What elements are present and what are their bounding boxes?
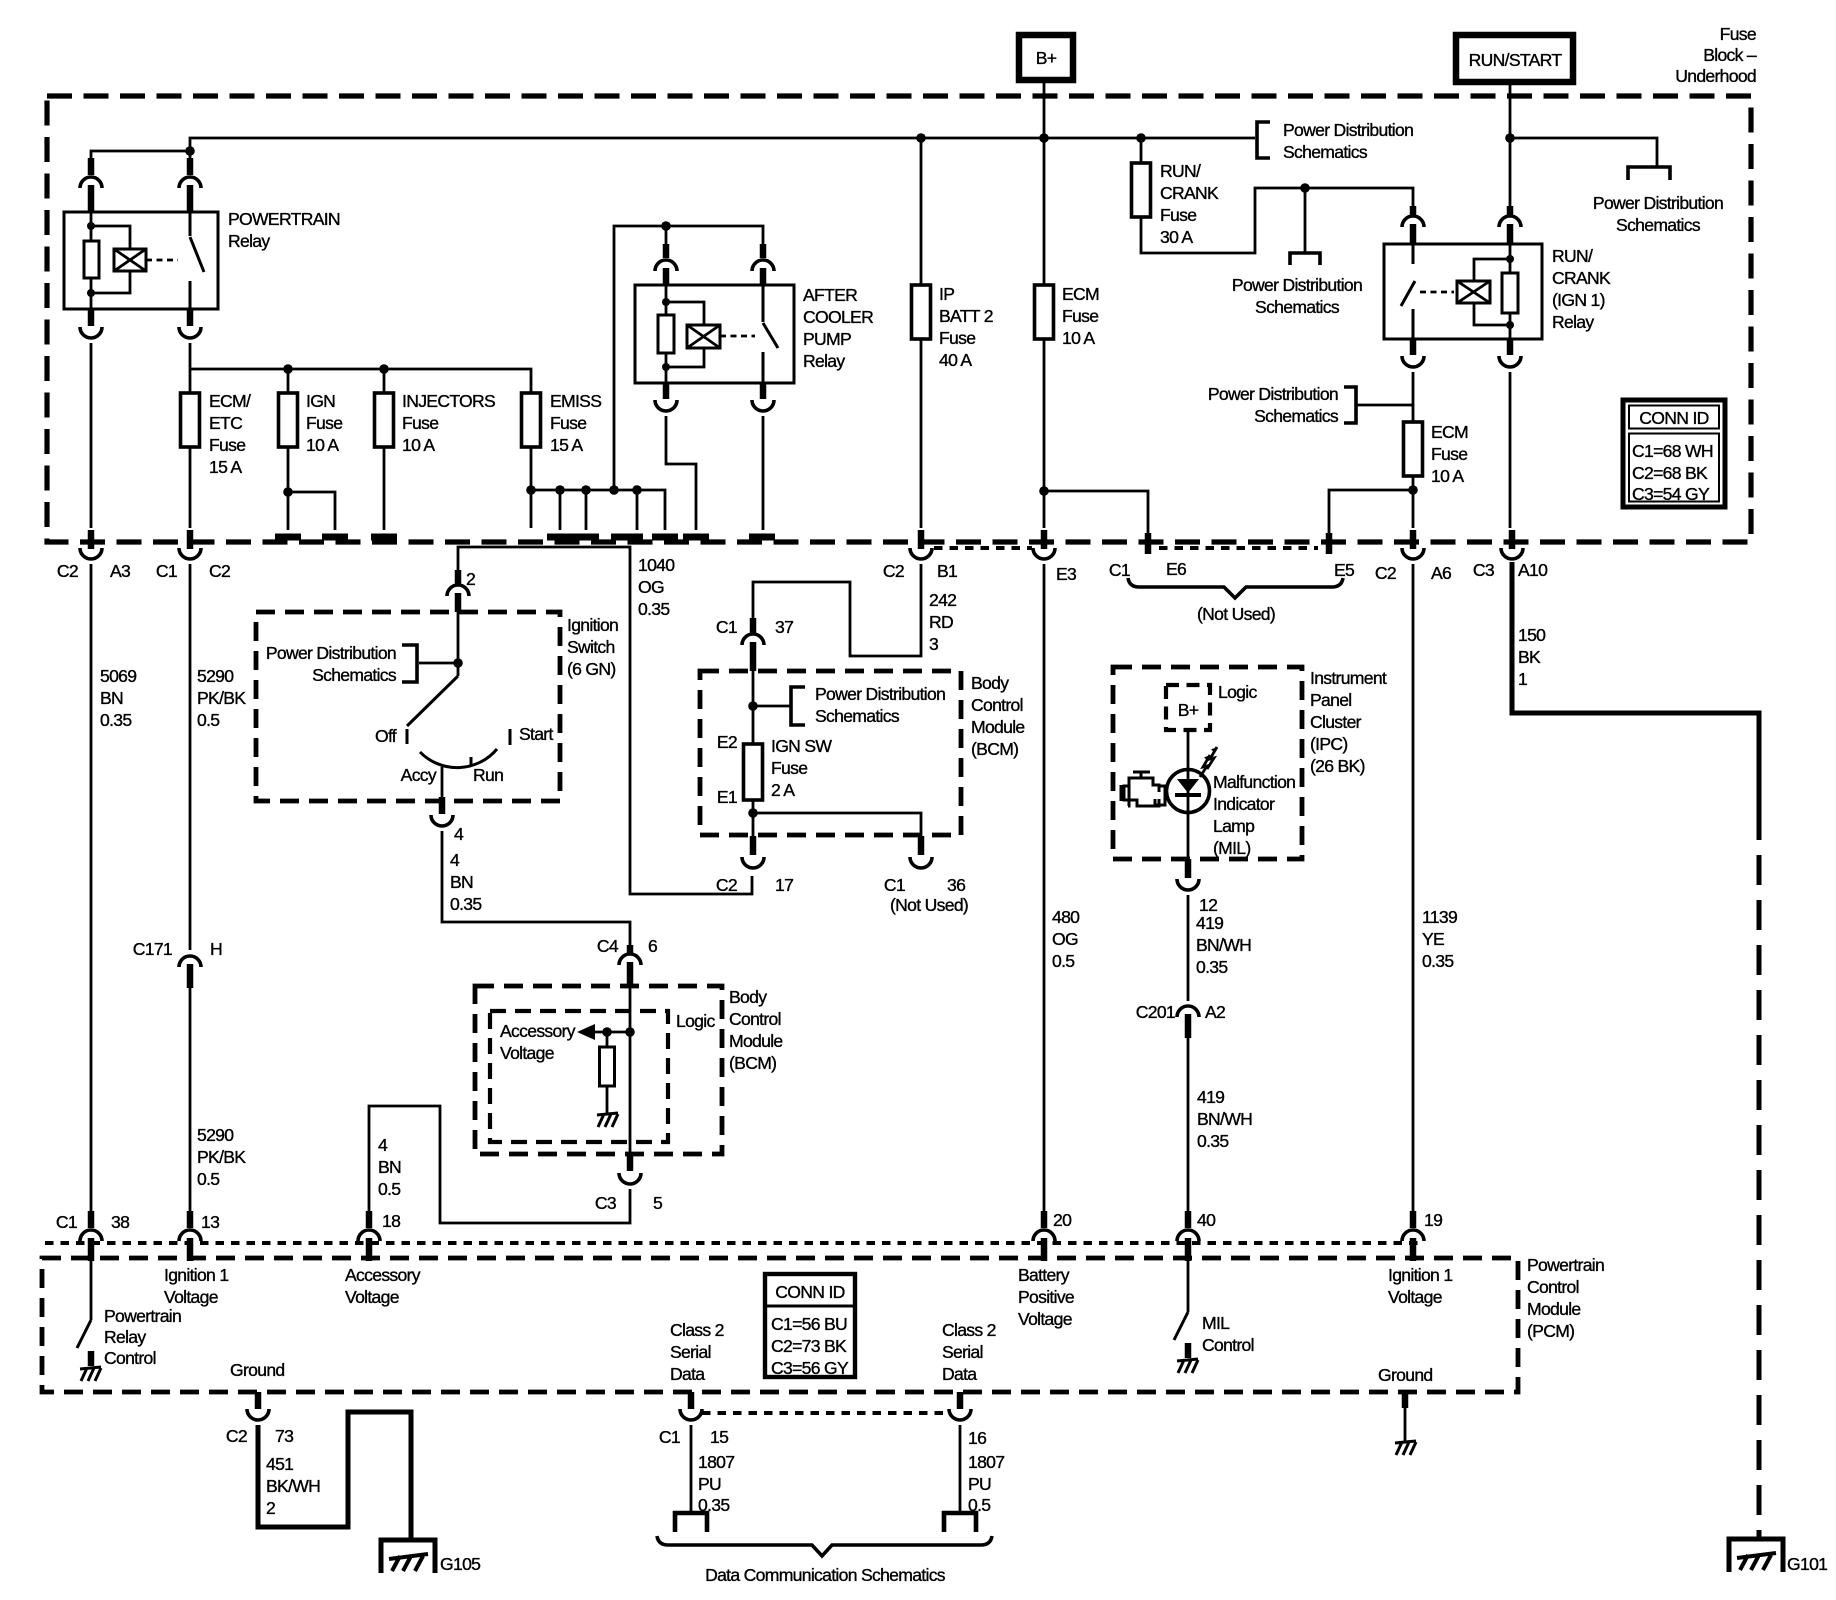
svg-text:C1: C1 — [716, 617, 737, 637]
svg-text:A6: A6 — [1431, 563, 1452, 583]
svg-text:480: 480 — [1052, 907, 1080, 927]
svg-text:ECM/: ECM/ — [209, 391, 251, 411]
svg-text:Logic: Logic — [676, 1011, 715, 1031]
svg-text:0.35: 0.35 — [638, 599, 670, 619]
svg-text:17: 17 — [775, 875, 793, 895]
svg-text:Positive: Positive — [1018, 1287, 1074, 1307]
svg-text:(6 GN): (6 GN) — [567, 659, 616, 679]
svg-text:13: 13 — [201, 1212, 220, 1232]
svg-text:Fuse: Fuse — [771, 758, 807, 778]
svg-text:12: 12 — [1199, 895, 1217, 915]
svg-text:PU: PU — [698, 1474, 721, 1494]
wire main feed bus — [190, 138, 1255, 151]
svg-text:5069: 5069 — [100, 666, 136, 686]
connector PCM C2 terminal 73 ground — [226, 1392, 294, 1446]
svg-text:C1=68 WH: C1=68 WH — [1632, 441, 1713, 461]
after cooler relay switch — [763, 285, 778, 383]
svg-text:2: 2 — [266, 1498, 275, 1518]
svg-text:Lamp: Lamp — [1213, 816, 1255, 836]
svg-text:Control: Control — [104, 1348, 156, 1368]
svg-text:Control: Control — [1202, 1335, 1254, 1355]
svg-text:0.35: 0.35 — [1422, 951, 1454, 971]
wire BCM to C3 — [629, 1142, 632, 1157]
svg-text:37: 37 — [775, 617, 793, 637]
wire 4 BN to BCM C4 — [442, 831, 630, 947]
svg-text:Accessory: Accessory — [500, 1021, 576, 1041]
reference bracket Power Distribution Schematics (BCM) — [753, 684, 945, 726]
label ignition 1 voltage pin 13 — [164, 1265, 228, 1307]
wire relay 87 to fuse bus — [189, 343, 192, 393]
terminal E5 stub — [1326, 533, 1333, 554]
svg-text:30 A: 30 A — [1160, 227, 1193, 247]
wire after cooler relay feed — [614, 226, 763, 490]
svg-text:Powertrain: Powertrain — [104, 1306, 181, 1326]
svg-text:G101: G101 — [1787, 1554, 1827, 1574]
node fuse bus INJECTORS — [379, 364, 389, 374]
wire powertrain relay feed — [91, 151, 190, 162]
svg-text:Fuse: Fuse — [306, 413, 342, 433]
svg-text:C1=56 BU: C1=56 BU — [771, 1314, 847, 1334]
svg-text:0.35: 0.35 — [450, 894, 482, 914]
svg-text:E1: E1 — [717, 787, 737, 807]
powertrain relay actuator dashed link — [146, 259, 178, 262]
svg-text:Voltage: Voltage — [1018, 1309, 1072, 1329]
reference bracket Power Distribution Schematics (bus end) — [1257, 120, 1413, 162]
svg-text:RD: RD — [929, 612, 953, 632]
svg-text:Relay: Relay — [228, 231, 270, 251]
wire 150 BK A10 to G101 — [1512, 562, 1759, 1537]
svg-text:4: 4 — [454, 824, 464, 844]
after cooler relay actuator dashed link — [720, 335, 755, 338]
svg-text:INJECTORS: INJECTORS — [402, 391, 495, 411]
svg-text:0.5: 0.5 — [378, 1179, 401, 1199]
svg-text:1807: 1807 — [968, 1452, 1004, 1472]
wire BCM accessory voltage main — [629, 986, 632, 1142]
connector IPC terminal 12 — [1177, 859, 1217, 915]
svg-text:Logic: Logic — [1218, 682, 1257, 702]
connector C2 terminal A6 — [1375, 530, 1452, 583]
svg-text:PU: PU — [968, 1474, 991, 1494]
IPC B+ internal box — [1166, 682, 1257, 730]
node after cooler coil top — [662, 298, 670, 306]
label Fuse Block - Underhood — [1675, 24, 1757, 86]
svg-text:Underhood: Underhood — [1675, 66, 1756, 86]
wire INJECTORS fuse output — [383, 447, 386, 530]
svg-text:PK/BK: PK/BK — [197, 1147, 246, 1167]
svg-text:Fuse: Fuse — [209, 435, 245, 455]
connector C201 terminal A2 — [1136, 1002, 1225, 1038]
svg-text:10 A: 10 A — [1062, 328, 1095, 348]
label class 2 serial data right — [942, 1320, 996, 1384]
svg-text:Data Communication Schematics: Data Communication Schematics — [705, 1565, 946, 1585]
svg-text:Power Distribution: Power Distribution — [815, 684, 945, 704]
svg-text:Voltage: Voltage — [164, 1287, 218, 1307]
svg-text:15 A: 15 A — [209, 457, 242, 477]
svg-text:16: 16 — [968, 1428, 987, 1448]
svg-text:Power Distribution: Power Distribution — [1208, 384, 1338, 404]
module PCM dashed box — [42, 1255, 1604, 1392]
power tap B+ — [1019, 35, 1073, 80]
svg-text:BN: BN — [450, 872, 473, 892]
connector pin after cooler relay coil top — [655, 244, 677, 285]
svg-text:B1: B1 — [937, 561, 957, 581]
connector BCM C2 terminal 17 — [716, 836, 793, 895]
node bus / B+ — [1039, 133, 1049, 143]
boundary feet marks — [275, 534, 775, 541]
connector pin run crank relay coil bottom — [1499, 339, 1521, 367]
svg-text:(BCM): (BCM) — [971, 739, 1018, 759]
svg-text:Schematics: Schematics — [815, 706, 900, 726]
label malfunction indicator lamp — [1213, 772, 1295, 858]
run crank relay coil — [1457, 259, 1510, 325]
node after cooler feed tee — [661, 221, 671, 231]
lamp MIL indicator — [1167, 747, 1218, 813]
connector pin run crank relay coil top — [1499, 206, 1521, 244]
connector C2 terminal B1 — [883, 530, 957, 581]
svg-text:B+: B+ — [1036, 48, 1057, 68]
wire 5290 PK/BK upper — [190, 564, 246, 950]
relay RUN/CRANK (IGN 1) box — [1384, 244, 1611, 339]
svg-text:10 A: 10 A — [402, 435, 435, 455]
label accessory voltage pin 18 — [345, 1265, 421, 1307]
svg-text:Module: Module — [1527, 1299, 1581, 1319]
svg-text:Control: Control — [971, 695, 1023, 715]
svg-text:419: 419 — [1197, 1087, 1224, 1107]
after cooler relay coil — [666, 302, 720, 367]
svg-text:Voltage: Voltage — [345, 1287, 399, 1307]
node coil top — [87, 222, 95, 230]
wire IGN fuse drop — [287, 369, 290, 393]
svg-text:Malfunction: Malfunction — [1213, 772, 1295, 792]
svg-text:6: 6 — [648, 936, 658, 956]
ignition switch blade and positions — [375, 612, 554, 785]
wire 1139 YE A6 to PCM 19 — [1413, 564, 1457, 1213]
fuse ECM/ETC 15A — [181, 391, 251, 477]
connector PCM C1 terminal 38 — [56, 1211, 130, 1261]
power tap RUN/START — [1456, 35, 1573, 82]
svg-text:CRANK: CRANK — [1552, 268, 1611, 288]
svg-text:Schematics: Schematics — [1616, 215, 1701, 235]
svg-text:G105: G105 — [440, 1554, 481, 1574]
svg-text:0.5: 0.5 — [197, 1169, 220, 1189]
wire 1807 PU 0.35 — [691, 1425, 734, 1515]
wire 1807 PU 0.5 — [960, 1425, 1004, 1515]
connector pin powertrain relay 30 top — [179, 158, 201, 212]
svg-text:18: 18 — [382, 1211, 401, 1231]
accessory voltage arrow — [500, 1021, 630, 1063]
svg-text:Power Distribution: Power Distribution — [1232, 275, 1362, 295]
svg-text:Powertrain: Powertrain — [1527, 1255, 1604, 1275]
svg-text:Ignition 1: Ignition 1 — [164, 1265, 228, 1285]
node BCM fuse feed — [748, 701, 758, 711]
wire B+ to MIL lamp — [1187, 730, 1190, 860]
wire IGN fuse output — [288, 447, 335, 530]
svg-text:C1: C1 — [659, 1427, 680, 1447]
svg-text:BN/WH: BN/WH — [1196, 935, 1251, 955]
connector pin powertrain relay 87 bottom — [179, 309, 201, 338]
svg-text:Relay: Relay — [1552, 312, 1594, 332]
conn id table PCM — [765, 1274, 855, 1378]
svg-text:(PCM): (PCM) — [1527, 1321, 1574, 1341]
svg-text:C1: C1 — [56, 1212, 77, 1232]
svg-text:73: 73 — [275, 1426, 294, 1446]
svg-text:CONN ID: CONN ID — [775, 1282, 844, 1302]
BCM logic inner dashed box — [490, 1011, 715, 1142]
svg-text:C2=68 BK: C2=68 BK — [1632, 463, 1708, 483]
wire INJECTORS fuse drop — [383, 369, 386, 393]
svg-text:IP: IP — [939, 284, 954, 304]
node EMISS bus 2 — [555, 485, 565, 495]
wire 5290 PK/BK lower to PCM 13 — [190, 988, 246, 1213]
svg-text:MIL: MIL — [1202, 1313, 1230, 1333]
svg-text:0.35: 0.35 — [1197, 1131, 1229, 1151]
wire after cooler coil out — [666, 416, 696, 530]
node EMISS bus 5 — [632, 485, 642, 495]
svg-text:C2: C2 — [209, 561, 230, 581]
svg-text:COOLER: COOLER — [803, 307, 873, 327]
svg-text:(Not Used): (Not Used) — [1197, 604, 1275, 624]
svg-text:36: 36 — [947, 875, 966, 895]
connector BCM C4 terminal 6 — [597, 936, 658, 986]
PCM powertrain relay control driver — [77, 1260, 181, 1381]
svg-text:2: 2 — [466, 569, 475, 589]
node bus / IP BATT 2 fuse — [916, 133, 926, 143]
wire EMISS fuse output bus — [530, 447, 533, 528]
connector pin powertrain relay 86 top — [80, 158, 102, 212]
node coil bottom — [87, 289, 95, 297]
svg-text:Ignition 1: Ignition 1 — [1388, 1265, 1452, 1285]
svg-text:Ground: Ground — [1378, 1365, 1432, 1385]
svg-text:C2: C2 — [226, 1426, 247, 1446]
label ignition 1 voltage pin 19 — [1388, 1265, 1452, 1307]
reference bracket Power Distribution Schematics (ign1 feed) — [1232, 188, 1362, 317]
node accessory tee — [625, 1027, 635, 1037]
wire 451 BK/WH to G105 — [258, 1412, 411, 1540]
svg-text:C4: C4 — [597, 936, 619, 956]
svg-text:5: 5 — [653, 1193, 663, 1213]
terminal class 2 left — [675, 1513, 707, 1532]
wire after cooler switch out — [762, 416, 765, 530]
svg-text:AFTER: AFTER — [803, 285, 857, 305]
svg-text:38: 38 — [111, 1212, 130, 1232]
svg-text:YE: YE — [1422, 929, 1444, 949]
svg-text:Relay: Relay — [104, 1327, 146, 1347]
svg-text:C1: C1 — [156, 561, 177, 581]
svg-text:Power Distribution: Power Distribution — [1593, 193, 1723, 213]
svg-text:1: 1 — [1518, 669, 1527, 689]
wire 419 BN/WH lower to PCM 40 — [1188, 1038, 1252, 1213]
PCM connector face dotted line — [45, 1241, 1420, 1245]
label class 2 serial data left — [670, 1320, 724, 1384]
connector pin run crank relay switch top — [1402, 206, 1424, 244]
connector pin run crank relay switch bottom — [1402, 339, 1424, 367]
label C1 E6 — [1109, 559, 1187, 580]
svg-text:Switch: Switch — [567, 637, 615, 657]
svg-text:10 A: 10 A — [306, 435, 339, 455]
svg-text:BN: BN — [100, 688, 123, 708]
svg-text:(MIL): (MIL) — [1213, 838, 1251, 858]
wire ignition switch pin 2 elbow and 1040 OG — [458, 547, 752, 894]
wire 419 BN/WH upper — [1188, 895, 1251, 1001]
node run crank branch — [1300, 183, 1310, 193]
svg-text:40 A: 40 A — [939, 350, 972, 370]
svg-text:E5: E5 — [1334, 560, 1355, 580]
svg-text:(26 BK): (26 BK) — [1310, 756, 1365, 776]
wire BCM ign sw fuse feed — [752, 671, 755, 744]
powertrain relay switch — [190, 212, 204, 309]
connector pin after cooler relay coil bottom — [655, 383, 677, 411]
svg-text:BATT 2: BATT 2 — [939, 306, 993, 326]
svg-text:C3=54 GY: C3=54 GY — [1632, 484, 1710, 504]
svg-text:RUN/: RUN/ — [1552, 246, 1593, 266]
fuse INJECTORS 10A — [375, 391, 496, 455]
connector ignition switch pin 2 — [447, 569, 475, 612]
node EMISS bus 4 — [609, 485, 619, 495]
svg-text:Run: Run — [473, 765, 503, 785]
svg-text:(IGN 1): (IGN 1) — [1552, 290, 1605, 310]
connector face dotted class 2 — [702, 1411, 949, 1415]
svg-text:Class 2: Class 2 — [942, 1320, 996, 1340]
svg-text:POWERTRAIN: POWERTRAIN — [228, 209, 340, 229]
svg-text:A2: A2 — [1205, 1002, 1225, 1022]
run crank relay actuator dashed link — [1420, 291, 1454, 294]
connector terminal E3 — [1033, 530, 1077, 584]
svg-text:ECM: ECM — [1062, 284, 1099, 304]
svg-text:(Not Used): (Not Used) — [890, 895, 968, 915]
svg-text:1139: 1139 — [1422, 907, 1457, 927]
module BCM upper dashed box — [700, 671, 1025, 835]
svg-text:Battery: Battery — [1018, 1265, 1070, 1285]
svg-text:Schematics: Schematics — [1255, 297, 1340, 317]
svg-text:Voltage: Voltage — [500, 1043, 554, 1063]
svg-text:Fuse: Fuse — [939, 328, 975, 348]
run crank relay coil resistor — [1502, 244, 1518, 339]
connector pin powertrain relay 85 bottom — [80, 309, 102, 338]
svg-text:Schematics: Schematics — [1283, 142, 1368, 162]
connector C171 terminal H — [133, 939, 222, 988]
fuse IP BATT 2 40A — [912, 284, 993, 370]
svg-text:C2=73 BK: C2=73 BK — [771, 1336, 847, 1356]
svg-text:Module: Module — [971, 717, 1025, 737]
svg-text:Control: Control — [729, 1009, 781, 1029]
svg-text:H: H — [210, 939, 222, 959]
svg-text:C2: C2 — [883, 561, 904, 581]
svg-text:Start: Start — [519, 724, 553, 744]
node run crank coil bottom — [1506, 321, 1514, 329]
reference bracket Power Distribution Schematics (ignition) — [266, 643, 458, 685]
node bus / RUN CRANK fuse — [1136, 133, 1146, 143]
svg-text:ETC: ETC — [209, 413, 243, 433]
fuse block underhood dashed box — [47, 96, 1751, 542]
wire RUN/CRANK fuse drop — [1140, 138, 1143, 163]
svg-text:C2: C2 — [1375, 563, 1396, 583]
svg-text:Schematics: Schematics — [1254, 406, 1339, 426]
wire IP BATT 2 fuse output — [920, 339, 923, 528]
svg-text:19: 19 — [1424, 1210, 1442, 1230]
svg-text:C171: C171 — [133, 939, 172, 959]
svg-text:Data: Data — [942, 1364, 977, 1384]
powertrain relay coil resistor — [84, 212, 99, 309]
svg-text:Power Distribution: Power Distribution — [1283, 120, 1413, 140]
node after cooler coil bottom — [662, 363, 670, 371]
wire 242 RD B1 to BCM C1 37 — [753, 564, 956, 656]
svg-text:OG: OG — [1052, 929, 1078, 949]
svg-text:PK/BK: PK/BK — [197, 688, 246, 708]
fuse ECM 10A right — [1404, 422, 1469, 486]
svg-text:C1: C1 — [884, 875, 905, 895]
svg-text:C3: C3 — [1473, 560, 1495, 580]
svg-text:Accy: Accy — [401, 765, 437, 785]
svg-text:Fuse: Fuse — [1160, 205, 1196, 225]
label battery positive voltage pin 20 — [1018, 1265, 1074, 1329]
svg-text:IGN SW: IGN SW — [771, 736, 832, 756]
svg-text:Ground: Ground — [230, 1360, 284, 1380]
PCM MIL control driver — [1174, 1260, 1254, 1373]
after cooler relay coil resistor — [658, 285, 674, 383]
svg-text:Off: Off — [375, 726, 397, 746]
node fuse bus IGN — [283, 364, 293, 374]
connector PCM terminal 18 — [358, 1211, 401, 1261]
svg-text:C3=56 GY: C3=56 GY — [771, 1358, 849, 1378]
svg-text:Data: Data — [670, 1364, 705, 1384]
node ECM fuse output tee — [1039, 486, 1049, 496]
svg-text:5290: 5290 — [197, 1125, 234, 1145]
svg-text:OG: OG — [638, 577, 664, 597]
wire 480 OG E3 to PCM 20 — [1044, 564, 1080, 1213]
node BCM fuse output tee — [748, 808, 758, 818]
connector PCM terminal 19 — [1402, 1210, 1442, 1261]
svg-text:Fuse: Fuse — [1062, 306, 1098, 326]
svg-text:3: 3 — [929, 634, 939, 654]
wire relay 85 to fuse block exit — [90, 343, 93, 528]
svg-text:Class 2: Class 2 — [670, 1320, 724, 1340]
wire ECM/ETC fuse output — [189, 447, 192, 528]
svg-text:Accessory: Accessory — [345, 1265, 421, 1285]
module IPC dashed box — [1113, 667, 1387, 859]
svg-text:Cluster: Cluster — [1310, 712, 1362, 732]
svg-text:419: 419 — [1196, 913, 1223, 933]
PCM ground pin wire — [1404, 1392, 1407, 1441]
run crank relay switch — [1401, 244, 1415, 339]
node ECM fuse right tee — [1408, 485, 1418, 495]
svg-text:4: 4 — [450, 850, 460, 870]
terminal class 2 right — [944, 1513, 976, 1532]
svg-text:40: 40 — [1197, 1210, 1216, 1230]
icon check engine — [1121, 772, 1165, 806]
node resistor tee — [602, 1027, 612, 1037]
connector BCM C1 terminal 36 — [884, 836, 968, 915]
svg-text:Ignition: Ignition — [567, 615, 618, 635]
connector BCM C1 terminal 37 — [716, 617, 793, 671]
fuse IGN 10A — [279, 391, 343, 455]
svg-text:E3: E3 — [1056, 564, 1077, 584]
svg-text:BK/WH: BK/WH — [266, 1476, 320, 1496]
powertrain relay coil — [91, 226, 146, 293]
connector PCM terminal 40 — [1177, 1210, 1216, 1261]
svg-text:A10: A10 — [1518, 560, 1548, 580]
wire ECM fuse output to E3 and E6 — [1044, 339, 1148, 533]
svg-text:1807: 1807 — [698, 1452, 734, 1472]
wire run crank relay switch to ECM fuse — [1412, 372, 1415, 422]
brace data communication schematics — [657, 1536, 992, 1585]
fuse IGN SW 2A — [717, 732, 833, 807]
wire IP BATT 2 fuse drop — [920, 138, 923, 285]
svg-text:Fuse: Fuse — [1431, 444, 1467, 464]
conn id table fuse block — [1623, 400, 1725, 507]
svg-text:451: 451 — [266, 1454, 293, 1474]
svg-text:4: 4 — [378, 1135, 388, 1155]
svg-text:Relay: Relay — [803, 351, 845, 371]
